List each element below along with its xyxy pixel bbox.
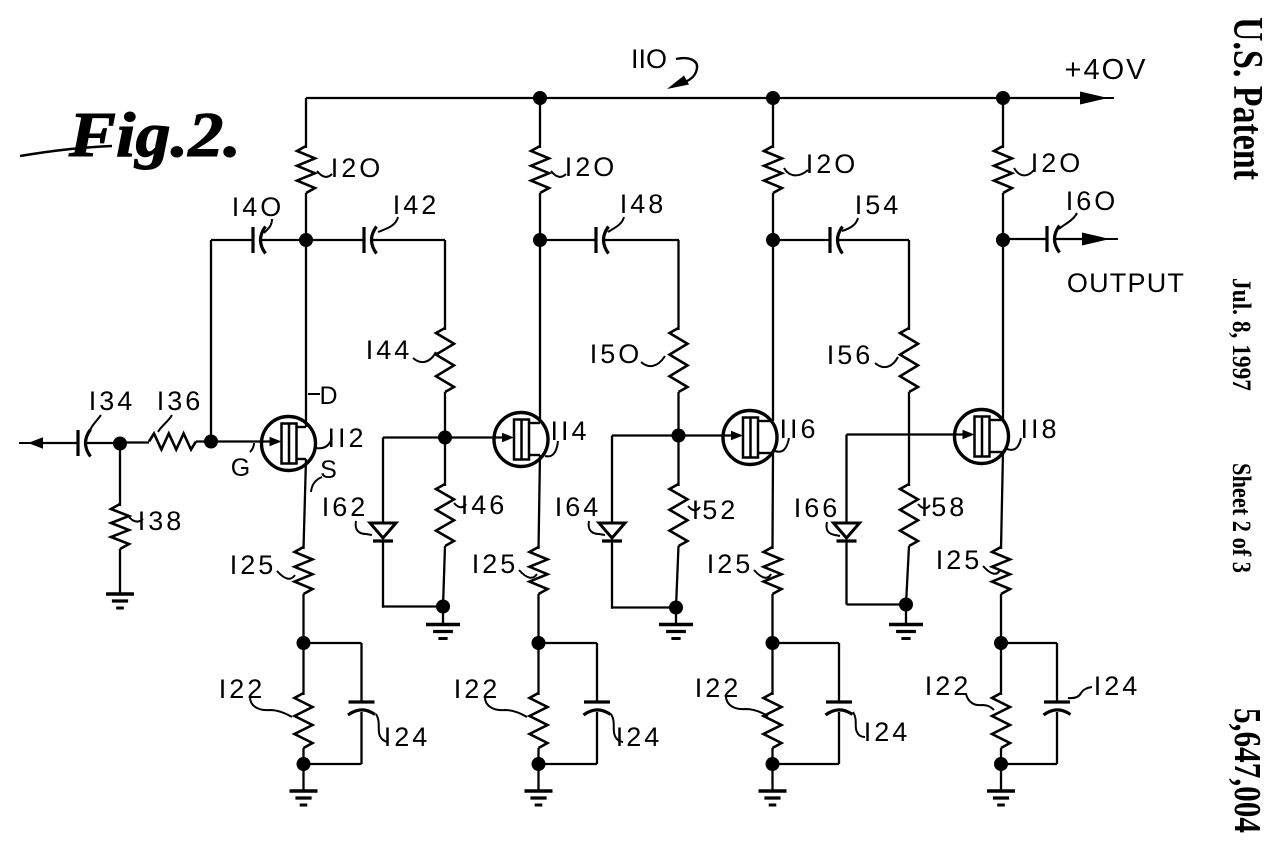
wire gate node to diode branch 162 <box>383 436 445 438</box>
wire diode branch down 164 <box>611 436 613 525</box>
wire bottom node to C124 stage 2 <box>539 763 598 765</box>
wire C124 top stage 1 <box>360 643 362 702</box>
junction dot rail stage 2 <box>533 91 547 105</box>
leader 124 stage 2 <box>611 714 623 742</box>
wire +40V supply rail 110 <box>306 97 1082 99</box>
svg-text:I24: I24 <box>384 722 431 752</box>
label 125 stage 1 <box>230 550 277 580</box>
capacitor C154 <box>830 227 843 254</box>
leader 120 stage 2 <box>551 171 566 177</box>
svg-text:II2: II2 <box>327 423 366 453</box>
leader 124 stage 4 <box>1068 687 1092 698</box>
leader 152 <box>688 506 700 510</box>
leader 122 stage 2 <box>485 697 527 717</box>
mid ground dot stage 4 <box>899 598 913 612</box>
resistor R144 <box>436 328 454 392</box>
wire diode branch down 166 <box>845 435 847 525</box>
wire drain node to Q114 drain <box>539 240 541 423</box>
wire corner down to R150 <box>677 240 679 330</box>
leader 112 <box>316 438 332 448</box>
leader 148 <box>608 217 624 232</box>
output arrowhead <box>1082 233 1118 246</box>
svg-text:I62: I62 <box>322 492 369 522</box>
wire R122 to bottom node stage 3 <box>771 748 773 764</box>
wire R138 drop <box>119 443 121 506</box>
arrow leader for 110 <box>667 58 697 89</box>
wire gate node to R152 <box>677 436 679 487</box>
diode D166 <box>834 523 860 541</box>
bottom node dot stage 4 <box>994 757 1008 771</box>
label 122 stage 3 <box>695 673 742 703</box>
resistor R125 stage 3 <box>764 547 782 594</box>
svg-text:I22: I22 <box>454 674 501 704</box>
ground under R122 stage 1 <box>290 791 318 805</box>
wire C160 to output arrow <box>1055 238 1085 240</box>
leader 164 <box>589 521 605 535</box>
svg-text:I5O: I5O <box>590 339 643 369</box>
ground under R152 <box>659 625 693 639</box>
wire rail to R120 stage 1 <box>305 98 307 148</box>
capacitor C124 stage 1 <box>348 702 375 715</box>
node B (gate node of Q112) <box>204 435 218 449</box>
label 114 <box>550 416 589 446</box>
resistor R158 <box>900 484 918 546</box>
label 146 <box>461 490 508 520</box>
wire C124 top stage 3 <box>838 643 840 702</box>
figure title Fig.2. <box>68 99 241 170</box>
label 154 <box>855 190 902 220</box>
resistor R125 stage 2 <box>530 547 548 594</box>
wire C124 top stage 2 <box>596 643 598 702</box>
mid ground dot stage 3 <box>669 601 683 615</box>
svg-text:II4: II4 <box>550 416 589 446</box>
wire bottom node to ground stage 1 <box>302 764 304 791</box>
tick for S label <box>311 477 322 492</box>
wire node A to R136 <box>120 441 149 443</box>
svg-text:I25: I25 <box>472 549 519 579</box>
gate node dot stage 2 <box>438 431 452 445</box>
mid ground dot stage 2 <box>436 600 450 614</box>
svg-text:D: D <box>319 382 340 410</box>
label OUTPUT <box>1067 268 1185 298</box>
wire drain node to Q112 drain <box>305 240 307 427</box>
label 162 <box>322 492 369 522</box>
label 148 <box>620 189 667 219</box>
wire R120 to drain node stage 3 <box>772 193 774 240</box>
wire R120 to drain node stage 4 <box>1002 193 1004 240</box>
header text 5,647,004 <box>1226 708 1268 833</box>
label 150 <box>590 339 643 369</box>
svg-text:I2O: I2O <box>806 149 859 179</box>
capacitor C160 <box>1047 226 1060 253</box>
label 144 <box>366 335 413 365</box>
capacitor C124 stage 4 <box>1044 702 1071 715</box>
wire D164 to bottom corner <box>611 541 613 609</box>
ground under R122 stage 2 <box>525 791 553 805</box>
label 152 <box>692 495 739 525</box>
label 120 stage 4 <box>1031 148 1084 178</box>
wire rail to R120 stage 2 <box>539 98 541 148</box>
wire drain node 1 to C142 <box>306 239 364 241</box>
wire R158 to mid dot <box>906 546 909 605</box>
leader 120 stage 4 <box>1014 168 1034 175</box>
svg-text:I48: I48 <box>620 189 667 219</box>
wire bottom node to C124 stage 4 <box>1001 763 1057 765</box>
label 138 <box>138 506 185 536</box>
wire bypass node to C124 stage 3 <box>773 642 840 644</box>
svg-text:I24: I24 <box>1094 671 1141 701</box>
wire bottom corner to mid dot 1 <box>612 606 676 608</box>
node A (input bias node) <box>113 437 127 451</box>
wire bottom corner to mid dot 2 <box>847 603 907 605</box>
label 160 <box>1066 186 1119 216</box>
label 116 <box>779 414 818 444</box>
svg-text:G: G <box>231 454 253 482</box>
svg-text:I2O: I2O <box>331 153 384 183</box>
wire input arrow to C134 <box>42 442 78 444</box>
svg-text:Fig.2.: Fig.2. <box>68 99 241 170</box>
svg-text:I25: I25 <box>230 550 277 580</box>
wire corner to C140 <box>211 239 253 241</box>
wire bypass node to C124 stage 1 <box>304 642 362 644</box>
wire R122 to bottom node stage 2 <box>537 748 539 764</box>
header text Jul. 8, 1997 <box>1227 278 1256 391</box>
resistor R146 <box>436 484 454 546</box>
wire C124 bottom stage 2 <box>596 712 598 764</box>
wire C154 to corner <box>838 239 910 241</box>
wire D166 to bottom corner <box>845 541 847 605</box>
wire R150 to gate node <box>677 392 679 436</box>
bottom node dot stage 3 <box>766 757 780 771</box>
wire bypass node to R122 stage 1 <box>302 643 304 695</box>
leader 116 <box>775 438 789 452</box>
leader 124 stage 1 <box>376 714 388 742</box>
svg-text:I6O: I6O <box>1066 186 1119 216</box>
resistor R122 stage 4 <box>992 693 1010 748</box>
svg-text:I22: I22 <box>925 671 972 701</box>
leader 134 <box>90 415 101 431</box>
wire diode branch down 162 <box>382 438 384 525</box>
wire R156 to R158 (crosses gate wire) <box>908 392 910 486</box>
wire R125 to bypass node stage 2 <box>537 594 539 643</box>
leader 150 <box>641 356 665 366</box>
wire R125 to bypass node stage 3 <box>771 594 773 643</box>
wire C148 to corner <box>604 239 680 241</box>
wire bottom node to C124 stage 3 <box>773 763 840 765</box>
wire corner down to R144 <box>444 240 446 330</box>
wire bypass node to C124 stage 2 <box>539 642 598 644</box>
resistor R120 stage 3 <box>764 146 782 193</box>
svg-text:I2O: I2O <box>1031 148 1084 178</box>
wire diode corner to Q118 gate <box>847 433 963 435</box>
ground under R146 <box>426 625 460 639</box>
bypass node dot stage 2 <box>532 636 546 650</box>
wire R125 to bypass node stage 4 <box>1000 594 1002 643</box>
leader 124 stage 3 <box>853 712 865 737</box>
wire gate node to Q gate stage 2 <box>445 436 502 438</box>
leader 158 <box>918 504 930 508</box>
wire C124 bottom stage 1 <box>360 712 362 764</box>
wire gate node to Q gate stage 3 <box>679 434 732 436</box>
leader 166 <box>826 522 840 536</box>
resistor R120 stage 1 <box>297 146 315 193</box>
svg-text:Sheet 2 of 3: Sheet 2 of 3 <box>1227 463 1256 573</box>
label 120 stage 2 <box>565 152 618 182</box>
drain node dot stage 1 <box>299 233 313 247</box>
drain node dot stage 3 <box>766 233 780 247</box>
wire R144 to gate node <box>444 392 446 438</box>
tick for G label <box>250 443 254 452</box>
label 120 stage 1 <box>331 153 384 183</box>
wire bottom corner to mid dot 0 <box>383 605 443 607</box>
label 124 stage 1 <box>384 722 431 752</box>
wire R152 to mid dot <box>676 546 679 608</box>
leader 136 <box>158 415 172 432</box>
resistor R125 stage 1 <box>295 547 313 594</box>
wire Q116 source to R125 stage 3 <box>771 453 774 549</box>
label 122 stage 1 <box>219 674 266 704</box>
label 140 <box>232 192 285 222</box>
svg-text:I56: I56 <box>827 340 874 370</box>
wire Q118 source to R125 stage 4 <box>1001 452 1003 549</box>
ground under R122 stage 3 <box>759 791 787 805</box>
leader 156 <box>875 357 898 367</box>
capacitor C142 <box>364 227 377 254</box>
leader 146 <box>454 503 466 507</box>
label 158 <box>921 492 968 522</box>
wire gate node to diode branch 164 <box>612 434 679 436</box>
wire Q114 source to R125 stage 2 <box>539 455 541 549</box>
label 124 stage 2 <box>616 722 663 752</box>
wire corner down to R156 <box>908 240 910 330</box>
label 112 <box>327 423 366 453</box>
wire C124 top stage 4 <box>1056 643 1058 702</box>
transistor Q114 (MOSFET) <box>494 413 548 467</box>
wire drain node 3 to C154 <box>773 239 830 241</box>
label 125 stage 4 <box>936 545 983 575</box>
leader 114 <box>545 441 558 456</box>
wire bypass node to R122 stage 3 <box>771 643 773 695</box>
resistor R125 stage 4 <box>992 547 1010 594</box>
transistor Q112 (MOSFET) <box>262 417 316 471</box>
wire R146 to mid dot <box>443 546 445 607</box>
leader 122 stage 3 <box>726 696 768 716</box>
leader 142 <box>378 217 398 232</box>
leader 144 <box>413 352 436 362</box>
transistor Q116 (MOSFET) <box>723 411 777 465</box>
capacitor C148 <box>596 227 609 254</box>
leader 125 stage 2 <box>519 570 537 578</box>
wire rail to R120 stage 4 <box>1002 98 1004 148</box>
wire drain node to Q116 drain <box>772 240 774 421</box>
label 125 stage 2 <box>472 549 519 579</box>
wire Q112 source to R125 stage 1 <box>304 459 307 549</box>
wire drain node 4 to C160 <box>1003 238 1047 240</box>
wire C142 to corner <box>372 239 446 241</box>
ground under R122 stage 4 <box>987 791 1015 805</box>
wire R120 to drain node stage 1 <box>305 193 307 240</box>
arrowhead +40V rail output <box>1080 92 1114 105</box>
wire node B to gate of Q112 <box>211 440 270 442</box>
input arrow (left) <box>19 437 43 448</box>
label 134 <box>89 386 136 416</box>
svg-text:I22: I22 <box>695 673 742 703</box>
svg-text:I42: I42 <box>393 190 440 220</box>
bottom node dot stage 1 <box>297 757 311 771</box>
resistor R152 <box>670 484 688 546</box>
label 124 stage 3 <box>864 717 911 747</box>
wire D162 to bottom corner <box>382 541 384 608</box>
svg-text:I4O: I4O <box>232 192 285 222</box>
wire C140 branch down to node B <box>210 240 212 442</box>
tick for D label <box>308 393 320 395</box>
leader 125 stage 3 <box>754 570 771 578</box>
label 118 <box>1020 414 1059 444</box>
svg-text:I52: I52 <box>692 495 739 525</box>
diode D162 <box>370 523 396 541</box>
capacitor C134 <box>78 430 91 457</box>
svg-text:II8: II8 <box>1020 414 1059 444</box>
svg-text:I38: I38 <box>138 506 185 536</box>
capacitor C140 <box>253 227 266 254</box>
resistor R120 stage 4 <box>994 146 1012 193</box>
resistor R122 stage 3 <box>764 693 782 748</box>
wire mid dot to ground stage 2 <box>442 607 444 626</box>
wire bypass node to R122 stage 2 <box>537 643 539 695</box>
underline swash of Fig.2. <box>20 146 112 156</box>
svg-text:+4OV: +4OV <box>1065 54 1148 86</box>
svg-text:I66: I66 <box>794 493 841 523</box>
svg-text:U.S. Patent: U.S. Patent <box>1224 17 1270 180</box>
junction dot rail stage 3 <box>766 91 780 105</box>
svg-text:IIO: IIO <box>631 44 667 74</box>
junction dot rail stage 4 <box>996 91 1010 105</box>
ground under R158 <box>889 625 923 639</box>
svg-text:II6: II6 <box>779 414 818 444</box>
wire R138 to ground <box>119 549 121 594</box>
ground under R138 <box>106 594 134 608</box>
leader 154 <box>842 218 858 231</box>
resistor R122 stage 2 <box>530 693 548 748</box>
wire bottom node to ground stage 2 <box>537 764 539 791</box>
wire bypass node to R122 stage 4 <box>1000 643 1002 695</box>
svg-text:5,647,004: 5,647,004 <box>1226 708 1268 833</box>
pin label S of Q112 <box>320 456 340 484</box>
label 164 <box>555 492 602 522</box>
bypass node dot stage 4 <box>994 636 1008 650</box>
leader 122 stage 4 <box>966 694 994 710</box>
label 166 <box>794 493 841 523</box>
resistor R150 <box>670 328 688 392</box>
leader 125 stage 1 <box>277 571 295 579</box>
label 125 stage 3 <box>707 549 754 579</box>
wire R136 to node B <box>196 440 213 442</box>
wire bottom node to C124 stage 1 <box>304 763 362 765</box>
pin label D of Q112 <box>319 382 340 410</box>
svg-text:I24: I24 <box>864 717 911 747</box>
label +40V <box>1065 54 1148 86</box>
drain node dot stage 2 <box>533 233 547 247</box>
leader 120 stage 1 <box>317 171 332 177</box>
label 122 stage 2 <box>454 674 501 704</box>
svg-text:S: S <box>320 456 340 484</box>
svg-text:I25: I25 <box>707 549 754 579</box>
label 124 stage 4 <box>1094 671 1141 701</box>
leader 122 stage 1 <box>250 697 292 717</box>
capacitor C124 stage 3 <box>826 702 853 715</box>
wire drain node to Q118 drain <box>1002 240 1004 420</box>
svg-text:I36: I36 <box>157 386 204 416</box>
wire C140 to drain node 1 <box>261 239 307 241</box>
svg-text:I44: I44 <box>366 335 413 365</box>
gate node dot stage 3 <box>672 429 686 443</box>
label 120 stage 3 <box>806 149 859 179</box>
label 136 <box>157 386 204 416</box>
bypass node dot stage 3 <box>766 636 780 650</box>
wire R125 to bypass node stage 1 <box>302 594 304 643</box>
header text Sheet 2 of 3 <box>1227 463 1256 573</box>
drain node dot stage 4 <box>996 233 1010 247</box>
resistor R120 stage 2 <box>531 146 549 193</box>
diode D164 <box>599 523 625 541</box>
leader 140 <box>264 219 272 233</box>
wire C134 to node A <box>86 442 123 444</box>
wire bottom node to ground stage 4 <box>1000 764 1002 791</box>
wire rail to R120 stage 3 <box>772 98 774 148</box>
wire gate node to R146 <box>444 438 446 487</box>
pin label G of Q112 <box>231 454 253 482</box>
wire bypass node to C124 stage 4 <box>1001 642 1057 644</box>
leader 125 stage 4 <box>983 566 1000 574</box>
wire mid dot to ground stage 4 <box>905 605 907 626</box>
svg-text:I46: I46 <box>461 490 508 520</box>
label 156 <box>827 340 874 370</box>
wire C124 bottom stage 3 <box>838 712 840 764</box>
label 110 (supply rail) <box>631 44 667 74</box>
svg-text:I2O: I2O <box>565 152 618 182</box>
resistor R136 <box>149 434 196 450</box>
leader 120 stage 3 <box>784 168 808 175</box>
resistor R122 stage 1 <box>295 693 313 748</box>
bypass node dot stage 1 <box>297 636 311 650</box>
wire R120 to drain node stage 2 <box>539 193 541 240</box>
bottom node dot stage 2 <box>532 757 546 771</box>
svg-text:Jul. 8, 1997: Jul. 8, 1997 <box>1227 278 1256 391</box>
resistor R156 <box>900 328 918 392</box>
transistor Q118 (MOSFET) <box>955 410 1009 464</box>
capacitor C124 stage 2 <box>584 702 611 715</box>
svg-text:I64: I64 <box>555 492 602 522</box>
wire drain node 2 to C148 <box>540 239 596 241</box>
wire bottom node to ground stage 3 <box>771 764 773 791</box>
svg-text:I54: I54 <box>855 190 902 220</box>
label 122 stage 4 <box>925 671 972 701</box>
svg-text:I25: I25 <box>936 545 983 575</box>
leader 160 <box>1059 213 1077 229</box>
resistor R138 <box>111 504 129 549</box>
wire R122 to bottom node stage 4 <box>1000 748 1002 764</box>
leader 138 <box>129 517 143 522</box>
wire mid dot to ground stage 3 <box>675 608 677 626</box>
label 142 <box>393 190 440 220</box>
svg-text:I24: I24 <box>616 722 663 752</box>
leader 118 <box>1007 438 1021 450</box>
svg-text:OUTPUT: OUTPUT <box>1067 268 1185 298</box>
wire C124 bottom stage 4 <box>1056 712 1058 764</box>
svg-text:I34: I34 <box>89 386 136 416</box>
header text U.S. Patent <box>1224 17 1270 180</box>
wire R122 to bottom node stage 1 <box>302 748 304 764</box>
